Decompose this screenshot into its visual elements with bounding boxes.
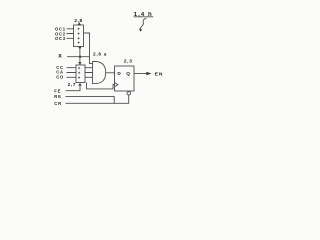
svg-text:Q: Q [126,71,130,76]
svg-text:OC3: OC3 [55,36,66,41]
svg-text:FE: FE [54,89,61,94]
svg-text:CO: CO [56,74,64,79]
svg-text:EN: EN [155,72,163,78]
svg-text:2,7: 2,7 [68,82,76,88]
svg-text:2,3: 2,3 [124,59,133,65]
svg-text:x: x [58,52,62,59]
svg-text:2,6 a: 2,6 a [93,52,107,58]
svg-text:1,4 h: 1,4 h [134,12,153,18]
svg-text:2,8: 2,8 [74,18,82,24]
svg-text:CR: CR [54,101,62,106]
svg-text:RE: RE [54,94,61,99]
svg-text:D: D [117,71,121,76]
